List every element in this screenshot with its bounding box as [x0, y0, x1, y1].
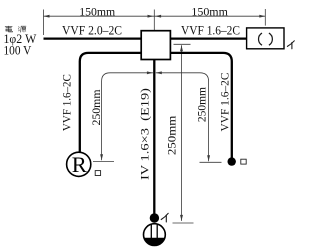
svg-text:250mm: 250mm [166, 115, 178, 155]
svg-text:150mm: 150mm [79, 4, 116, 18]
svg-text:100 V: 100 V [4, 44, 32, 58]
svg-text:IV 1.6×3 (E19): IV 1.6×3 (E19) [139, 88, 152, 180]
svg-text:VVF 2.0–2C: VVF 2.0–2C [62, 24, 122, 38]
svg-text:250mm: 250mm [197, 87, 209, 122]
svg-text:VVF 1.6–2C: VVF 1.6–2C [181, 24, 240, 38]
svg-text:VVF 1.6–2C: VVF 1.6–2C [218, 72, 231, 131]
svg-text:150mm: 150mm [191, 4, 228, 18]
svg-text:VVF 1.6–2C: VVF 1.6–2C [61, 74, 74, 131]
svg-text:250mm: 250mm [91, 89, 103, 125]
svg-text:R: R [72, 152, 87, 177]
